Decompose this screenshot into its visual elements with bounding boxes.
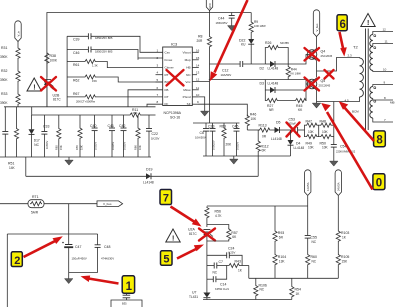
- wire box left: [6, 234, 8, 307]
- svg-text:IC3: IC3: [171, 41, 178, 46]
- pin5 stub: [156, 81, 163, 83]
- svg-text:C40: C40: [90, 124, 96, 128]
- svg-text:NC: NC: [260, 288, 265, 292]
- svg-text:SF: SF: [187, 102, 191, 106]
- resistor R104: [273, 254, 286, 279]
- transformer T2 secondary winding lower: [370, 81, 395, 123]
- wire junction down: [68, 204, 70, 234]
- svg-text:R113: R113: [259, 124, 267, 128]
- resistor R63: [220, 123, 233, 156]
- wire U2A top bus: [207, 205, 308, 207]
- svg-text:R44: R44: [291, 68, 297, 72]
- svg-text:11: 11: [196, 86, 199, 90]
- node V_in net flag top-left: [15, 21, 21, 42]
- svg-text:KK 1/8W: KK 1/8W: [291, 72, 302, 76]
- resistor R26: [265, 41, 289, 64]
- diode D3: [260, 80, 307, 94]
- svg-text:C14: C14: [220, 282, 226, 286]
- resistor R67: [67, 92, 163, 104]
- svg-text:LL4148: LL4148: [268, 66, 279, 70]
- resistor R51: [8, 107, 19, 170]
- svg-text:R55: R55: [75, 145, 79, 150]
- row Mlow to Q5: [209, 79, 265, 81]
- svg-text:10A/50V: 10A/50V: [221, 73, 232, 77]
- svg-text:20R: 20R: [197, 39, 204, 43]
- svg-text:LL4148: LL4148: [143, 181, 154, 185]
- red X over C53: [287, 123, 300, 137]
- resistor R113: [259, 124, 271, 139]
- resistor R112: [256, 130, 269, 156]
- svg-text:14K: 14K: [9, 166, 16, 170]
- wire box top: [7, 233, 97, 235]
- capacitor C14: [207, 266, 230, 292]
- svg-text:C42: C42: [119, 124, 125, 128]
- svg-text:LL4148: LL4148: [271, 137, 282, 141]
- red X over Q5: [305, 78, 320, 91]
- svg-text:8: 8: [376, 135, 383, 147]
- svg-text:10K: 10K: [308, 145, 315, 149]
- callout 6: [337, 15, 347, 31]
- resistor R93: [273, 230, 284, 254]
- transformer T2 secondary winding upper: [370, 28, 393, 72]
- svg-text:D19: D19: [146, 168, 152, 172]
- wire up at right end: [257, 156, 259, 176]
- svg-text:TL431: TL431: [189, 295, 198, 299]
- svg-text:6: 6: [340, 19, 346, 31]
- warning triangle bottom: [166, 229, 180, 243]
- resistor R106: [254, 278, 267, 299]
- red X over Q4: [305, 48, 320, 61]
- capacitor C24: [207, 246, 242, 265]
- svg-text:220KV/MMPK02: 220KV/MMPK02: [336, 150, 356, 154]
- svg-text:1850/25V 885: 1850/25V 885: [95, 50, 113, 54]
- svg-text:C41: C41: [108, 124, 114, 128]
- red arrow from 0 to ground: [321, 103, 372, 190]
- wire Vcc bus lower: [209, 48, 211, 124]
- svg-text:390K: 390K: [0, 55, 8, 59]
- svg-text:2: 2: [14, 255, 20, 267]
- svg-text:C48: C48: [104, 245, 110, 249]
- thermistor RT1: [28, 195, 44, 214]
- svg-text:4,5: 4,5: [345, 99, 350, 103]
- resistor R11: [129, 108, 141, 117]
- wire to U2A: [206, 219, 208, 228]
- svg-text:7: 7: [163, 193, 169, 205]
- svg-text:11: 11: [385, 40, 388, 44]
- svg-text:10A/50V: 10A/50V: [195, 136, 206, 140]
- svg-text:10K: 10K: [322, 145, 329, 149]
- svg-text:10K: 10K: [251, 117, 258, 121]
- svg-text:NC: NC: [312, 259, 317, 263]
- svg-text:10/25V: 10/25V: [94, 142, 98, 150]
- capacitor C41: [108, 115, 116, 157]
- capacitor C46: [67, 47, 163, 60]
- resistor R54: [290, 278, 301, 299]
- svg-text:HB: HB: [186, 66, 190, 70]
- wire right rail of grid: [333, 102, 335, 145]
- node flag above R103: [335, 170, 341, 196]
- svg-text:15: 15: [196, 56, 200, 60]
- svg-text:6R: 6R: [279, 235, 284, 239]
- svg-text:R38: R38: [50, 54, 56, 58]
- resistor R46: [245, 113, 257, 131]
- svg-text:20K: 20K: [226, 143, 233, 147]
- svg-text:15K: 15K: [92, 79, 97, 83]
- svg-text:NC: NC: [312, 240, 317, 244]
- svg-text:1: 1: [126, 281, 133, 293]
- red arrow from 6 to transformer: [340, 32, 347, 57]
- ground at Q5 emitter: [312, 102, 320, 109]
- svg-text:KU: KU: [241, 43, 246, 47]
- resistor R103: [336, 230, 349, 254]
- svg-text:R51: R51: [8, 162, 14, 166]
- svg-text:10K: 10K: [308, 130, 315, 134]
- resistor R43: [228, 260, 249, 273]
- svg-text:2SC2645: 2SC2645: [319, 83, 331, 87]
- wire left rail down: [206, 241, 208, 292]
- svg-text:K25V: K25V: [229, 250, 236, 254]
- wire to transformer primary top: [317, 58, 346, 72]
- svg-text:12: 12: [196, 78, 200, 82]
- svg-text:R26: R26: [265, 41, 271, 45]
- capacitor C39: [67, 33, 163, 52]
- svg-text:474K630V: 474K630V: [101, 257, 114, 261]
- resistor R32: [0, 69, 20, 82]
- svg-text:15K: 15K: [80, 145, 84, 150]
- svg-text:B35: B35: [122, 302, 127, 306]
- svg-text:100K: 100K: [50, 59, 58, 63]
- svg-text:0R: 0R: [262, 135, 267, 139]
- ground below C47: [65, 273, 73, 284]
- resistor R55: [75, 115, 84, 157]
- resistor R44: [286, 64, 301, 80]
- resistor R45: [278, 90, 307, 112]
- transistor Q4: [307, 49, 332, 61]
- svg-text:C47: C47: [75, 245, 81, 249]
- svg-text:C7: C7: [219, 260, 224, 264]
- wire RT1 to flag: [44, 203, 97, 205]
- capacitor C48: [95, 234, 115, 273]
- svg-text:12: 12: [383, 28, 387, 32]
- resistor R27: [265, 90, 278, 112]
- wire transformer primary return: [317, 97, 360, 102]
- wire to Q4 base: [288, 55, 307, 65]
- svg-text:NC: NC: [186, 73, 191, 77]
- svg-text:LL4148: LL4148: [294, 146, 305, 150]
- svg-text:R67: R67: [73, 92, 79, 96]
- resistor R65: [54, 115, 63, 157]
- svg-text:R33: R33: [1, 92, 7, 96]
- svg-text:R61: R61: [73, 63, 79, 67]
- wire long horizontal: [26, 175, 146, 177]
- resistor R60: [306, 254, 317, 279]
- wire bus FF row: [4, 106, 156, 108]
- diode D22: [239, 33, 254, 64]
- svg-text:10/25V: 10/25V: [111, 142, 115, 150]
- transformer T2: [345, 29, 369, 131]
- node V_bus flag horizontal: [97, 201, 123, 207]
- svg-text:C44: C44: [218, 17, 224, 21]
- svg-text:SO-16: SO-16: [170, 116, 180, 120]
- capacitor C40: [90, 115, 98, 157]
- svg-text:10/25V: 10/25V: [236, 142, 240, 150]
- red arrow from 5 to U2A: [177, 245, 204, 259]
- svg-text:U7: U7: [192, 291, 197, 295]
- svg-text:C23: C23: [208, 124, 214, 128]
- wire down to long wire: [25, 157, 27, 176]
- svg-text:D5: D5: [276, 120, 281, 124]
- resistor R105: [336, 254, 349, 279]
- svg-text:R32: R32: [1, 69, 7, 73]
- diode D2: [260, 61, 289, 70]
- resistor R47: [305, 119, 318, 134]
- wire lower bus: [249, 277, 338, 279]
- svg-text:10/50V: 10/50V: [45, 141, 49, 149]
- wire mid rail of grid: [318, 125, 320, 136]
- wire: [17, 82, 19, 93]
- svg-text:LL4148: LL4148: [268, 82, 279, 86]
- transistor Q5: [307, 78, 330, 90]
- svg-text:Vcc: Vcc: [185, 80, 191, 84]
- svg-text:25K: 25K: [133, 111, 138, 115]
- resistor R9: [249, 13, 266, 34]
- resistor R56: [205, 207, 223, 219]
- svg-text:R62: R62: [73, 79, 79, 83]
- svg-text:PGnd: PGnd: [183, 95, 191, 99]
- svg-text:5: 5: [163, 254, 169, 266]
- svg-text:24V/2A: 24V/2A: [337, 182, 341, 191]
- ground left bank: [65, 157, 73, 165]
- pin4 stub: [156, 74, 163, 76]
- red arrow from 8 to transformer return: [339, 101, 374, 141]
- node V_bus net flag above Q4: [313, 10, 319, 37]
- svg-text:RT1: RT1: [32, 195, 39, 199]
- capacitor C53: [287, 118, 305, 134]
- capacitor C6: [195, 123, 209, 156]
- wire mid bus right: [141, 114, 156, 116]
- svg-text:MB: MB: [390, 101, 395, 105]
- callout 2: [11, 252, 22, 267]
- svg-text:R47: R47: [306, 119, 312, 123]
- svg-text:C6: C6: [200, 131, 205, 135]
- wire bottom row: [207, 299, 292, 301]
- svg-text:R48: R48: [320, 119, 326, 123]
- wire Q4 collector to flag: [316, 37, 318, 49]
- svg-text:C45: C45: [232, 124, 238, 128]
- connector bottom center: [111, 294, 142, 307]
- resistor R61: [67, 59, 163, 67]
- svg-text:V_in: V_in: [16, 30, 20, 36]
- svg-text:K45W CL21: K45W CL21: [215, 287, 230, 291]
- optocoupler U2B: [44, 80, 61, 102]
- resistor R66: [134, 115, 143, 157]
- capacitor C33: [41, 115, 49, 157]
- svg-text:DT: DT: [165, 95, 169, 99]
- svg-text:NCP1396A: NCP1396A: [164, 111, 182, 115]
- warning triangle left: [27, 78, 41, 92]
- svg-text:V_bus: V_bus: [315, 23, 319, 32]
- svg-text:R43: R43: [235, 260, 241, 264]
- svg-text:NR: NR: [269, 108, 274, 112]
- wire: [46, 91, 48, 107]
- wire bank top bus: [32, 107, 129, 115]
- svg-text:FF: FF: [165, 102, 169, 106]
- wire to Q5 base: [306, 83, 307, 85]
- svg-text:R8: R8: [198, 35, 203, 39]
- svg-text:NC: NC: [213, 271, 218, 275]
- red X over IC3 RT/BO pins: [167, 70, 184, 86]
- svg-text:10K: 10K: [138, 145, 142, 150]
- resistor R50: [318, 135, 334, 150]
- callout 8: [374, 131, 386, 147]
- svg-text:R31: R31: [1, 46, 7, 50]
- svg-text:15K: 15K: [59, 145, 63, 150]
- callout 0: [373, 174, 385, 190]
- svg-text:4.7K: 4.7K: [215, 214, 222, 218]
- svg-text:Fmax: Fmax: [165, 58, 173, 62]
- svg-text:2SC2645: 2SC2645: [321, 54, 333, 58]
- wire: [17, 105, 19, 107]
- capacitor C42: [119, 115, 127, 157]
- wire ladder left bus: [66, 36, 68, 107]
- red X over U2B: [41, 77, 56, 91]
- svg-text:C33: C33: [43, 125, 49, 129]
- ground below C54: [330, 160, 338, 167]
- svg-text:T2: T2: [353, 45, 358, 50]
- wire bottom-left input: [0, 203, 28, 205]
- capacitor C22: [146, 115, 160, 157]
- svg-text:15K: 15K: [342, 259, 349, 263]
- wire R113 row: [247, 129, 259, 131]
- capacitor C32 left edge: [2, 107, 8, 157]
- wire: [46, 64, 48, 78]
- shunt regulator U7 TL431: [189, 291, 210, 300]
- svg-text:NC: NC: [34, 143, 39, 147]
- wire Q5 emitter to ground: [316, 90, 318, 102]
- wire Q4 emitter to Q5 collector: [316, 61, 318, 78]
- capacitor C7: [207, 260, 228, 275]
- svg-text:D3: D3: [260, 82, 265, 86]
- pin stubs right of IC3: [192, 48, 209, 104]
- node VCC net flag top: [206, 0, 212, 11]
- svg-text:10: 10: [196, 93, 200, 97]
- svg-text:C22: C22: [152, 132, 158, 136]
- svg-text:390K: 390K: [0, 78, 8, 82]
- pin numbers left: [157, 48, 159, 104]
- capacitor C12: [210, 61, 266, 77]
- wire top rail: [47, 13, 251, 107]
- capacitor C55: [305, 236, 317, 254]
- wire pin8 connect: [147, 104, 163, 107]
- ground C6 bank: [230, 156, 238, 164]
- zener D17: [29, 115, 40, 157]
- callout 7: [160, 190, 172, 205]
- capacitor C44: [216, 13, 235, 26]
- resistor R57: [207, 228, 238, 241]
- svg-text:100/25V: 100/25V: [212, 140, 216, 150]
- svg-text:NR 885: NR 885: [280, 41, 289, 45]
- wire C6 bank top bus: [193, 122, 240, 124]
- svg-text:1K25V: 1K25V: [151, 137, 160, 141]
- callout 1: [122, 276, 134, 293]
- svg-text:VCC: VCC: [208, 3, 212, 9]
- svg-text:Css: Css: [165, 50, 171, 54]
- svg-text:Vboot: Vboot: [183, 50, 191, 54]
- svg-text:R63: R63: [220, 124, 226, 128]
- svg-text:RT: RT: [165, 73, 169, 77]
- wire box bottom: [69, 272, 98, 274]
- warning triangle top right: [361, 14, 375, 28]
- capacitor C54: [331, 145, 356, 160]
- svg-text:R65: R65: [54, 145, 58, 150]
- red X on wire: [325, 70, 334, 79]
- red arrow to IC3 Vcc pin: [210, 0, 248, 81]
- svg-text:1650/25V: 1650/25V: [216, 21, 228, 25]
- red arrow from 1 to ground: [81, 276, 119, 284]
- svg-text:R66: R66: [134, 145, 138, 150]
- svg-text:13: 13: [196, 71, 200, 75]
- ground below C44: [228, 24, 236, 31]
- svg-text:1.3K: 1.3K: [92, 64, 98, 68]
- svg-text:10: 10: [383, 68, 387, 72]
- red arrow from 7 to U2A: [171, 207, 202, 227]
- svg-text:5A/R: 5A/R: [31, 211, 39, 215]
- red arrow from 2 to C47 junction: [24, 236, 63, 257]
- svg-text:12V/5A: 12V/5A: [306, 182, 310, 191]
- wire pin9 row to R46: [199, 104, 248, 116]
- optocoupler U2A: [188, 228, 213, 242]
- op-amp IC3 NCP1396A body: [163, 41, 193, 119]
- svg-text:0: 0: [376, 178, 382, 190]
- resistor R48: [318, 119, 334, 134]
- diode D4: [288, 130, 305, 156]
- svg-text:BCM: BCM: [352, 110, 359, 114]
- svg-text:10R 1/8W: 10R 1/8W: [254, 24, 266, 28]
- wire top path: [265, 79, 306, 81]
- wire C55 rail: [307, 196, 309, 236]
- wire pin6 connect: [128, 90, 163, 107]
- svg-text:20KCT+500Rw: 20KCT+500Rw: [76, 100, 96, 104]
- resistor R33: [0, 92, 20, 105]
- capacitor C23: [208, 123, 216, 156]
- capacitor C45: [232, 123, 240, 156]
- wire: [17, 42, 19, 48]
- capacitor C47: [62, 234, 87, 273]
- wire R103 rail: [337, 196, 339, 230]
- red X over U2A: [199, 229, 215, 241]
- svg-text:150uF/450V: 150uF/450V: [72, 257, 87, 261]
- svg-text:Mup: Mup: [185, 58, 191, 62]
- svg-text:R9: R9: [254, 20, 258, 24]
- wire C6 bank bottom bus: [203, 155, 291, 157]
- ground at IC3 PGnd: [199, 97, 209, 116]
- wire: [17, 59, 19, 70]
- svg-text:0R: 0R: [262, 149, 267, 153]
- svg-text:390K: 390K: [0, 101, 8, 105]
- svg-text:C39: C39: [73, 38, 79, 42]
- wire Vcc bus vertical: [209, 11, 211, 36]
- diode D5: [271, 120, 296, 141]
- resistor R31: [0, 46, 20, 59]
- wire right rail of RC: [248, 266, 250, 279]
- svg-text:10/25V: 10/25V: [123, 142, 127, 150]
- wire bottom bus left bank: [0, 156, 151, 158]
- svg-text:817C: 817C: [189, 232, 197, 236]
- svg-text:2,3: 2,3: [348, 53, 353, 57]
- svg-text:D2: D2: [260, 66, 265, 70]
- svg-text:16: 16: [196, 48, 200, 52]
- wire U2A to R57 loop: [207, 225, 229, 230]
